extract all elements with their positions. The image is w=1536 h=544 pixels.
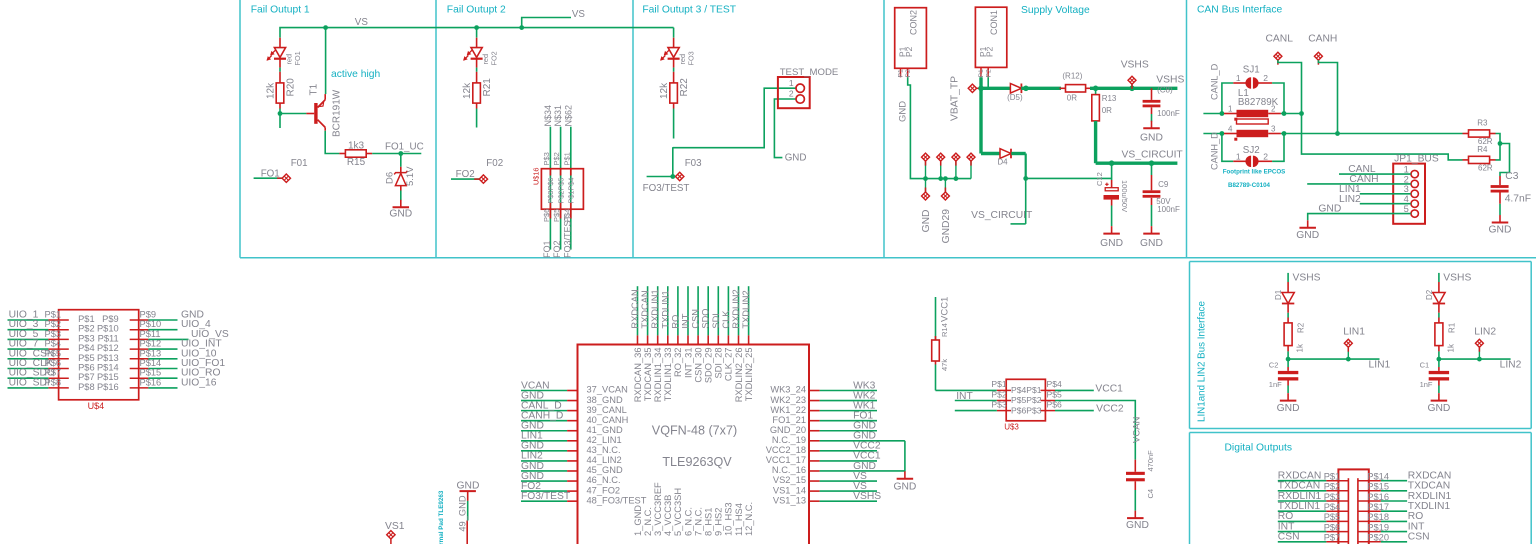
svg-text:39_CANL: 39_CANL bbox=[587, 405, 627, 415]
wires SJ2 to rows bbox=[1222, 134, 1284, 162]
svg-text:P$16: P$16 bbox=[140, 377, 162, 387]
svg-text:SDI: SDI bbox=[711, 313, 721, 329]
wire R3/R4 to C3 bbox=[1496, 134, 1510, 177]
svg-text:P$14: P$14 bbox=[140, 358, 162, 368]
resistor R20 bbox=[276, 72, 284, 109]
svg-text:8_HS1: 8_HS1 bbox=[704, 508, 714, 536]
svg-text:P$5: P$5 bbox=[552, 209, 561, 222]
wire/pin GND (IC left pin 45) bbox=[521, 470, 578, 472]
svg-text:6_N.C.: 6_N.C. bbox=[683, 507, 693, 536]
svg-text:R21: R21 bbox=[482, 78, 493, 97]
diode D2 bbox=[1433, 282, 1445, 318]
wire/pin LIN1 (IC left pin 42) bbox=[521, 440, 578, 442]
svg-text:1_GND: 1_GND bbox=[633, 505, 643, 536]
svg-text:P$2: P$2 bbox=[991, 389, 1007, 399]
svg-text:P$10: P$10 bbox=[97, 324, 119, 334]
capacitor C9 100nF 50V bbox=[1143, 163, 1161, 226]
svg-text:1: 1 bbox=[1228, 105, 1233, 114]
wire U$3 P$5 to C4/VCAN bbox=[1055, 401, 1135, 460]
resistor R22 bbox=[670, 72, 678, 109]
wire FO3 to TEST_MODE pin1 bbox=[672, 147, 674, 176]
wire UIO_4 (U$4 right pin P$10) bbox=[130, 329, 178, 331]
wire R20 to T1 base bbox=[280, 109, 306, 129]
svg-text:45_GND: 45_GND bbox=[587, 465, 623, 475]
wire/pin VCAN (IC left pin 37) bbox=[521, 390, 578, 392]
svg-text:BCR191W: BCR191W bbox=[332, 89, 343, 137]
wire below R22 bbox=[673, 109, 675, 139]
svg-text:44_LIN2: 44_LIN2 bbox=[587, 455, 622, 465]
wire VSHS (LIN2) bbox=[1438, 273, 1440, 282]
junction VSHS test point bbox=[1129, 86, 1135, 92]
svg-text:P$1: P$1 bbox=[1324, 472, 1341, 482]
svg-text:2: 2 bbox=[1263, 151, 1268, 161]
diode D5 bbox=[1010, 84, 1021, 94]
svg-text:47k: 47k bbox=[940, 359, 949, 371]
svg-text:47_FO2: 47_FO2 bbox=[587, 485, 621, 495]
connector CON1 bbox=[975, 7, 1006, 77]
connector JP1_BUS bbox=[1393, 164, 1425, 224]
wire UIO_RO (U$4 right pin P$15) bbox=[130, 377, 178, 379]
svg-text:R15: R15 bbox=[347, 157, 366, 168]
junction VS at LED FO2 bbox=[474, 25, 479, 30]
wire/pin RXDLIN1 (IC top pin 34) bbox=[657, 286, 659, 344]
svg-text:N$31: N$31 bbox=[553, 105, 563, 127]
svg-text:P$6: P$6 bbox=[78, 363, 95, 373]
svg-text:P$3: P$3 bbox=[991, 399, 1007, 409]
svg-text:C2: C2 bbox=[1269, 361, 1279, 370]
wire RXDCAN (right) bbox=[1358, 480, 1407, 482]
svg-text:P$8: P$8 bbox=[78, 382, 95, 392]
svg-text:P$5P$2: P$5P$2 bbox=[1011, 395, 1042, 405]
svg-text:F01: F01 bbox=[291, 158, 308, 169]
wire/pin VS (IC right pin 15) bbox=[809, 480, 877, 482]
wire VS_CIRCUIT rail (thick) bbox=[1096, 121, 1178, 163]
svg-text:R3: R3 bbox=[1477, 118, 1488, 127]
svg-text:LIN2: LIN2 bbox=[1339, 194, 1361, 205]
test point CANH bbox=[1314, 52, 1337, 133]
wire UIO_7 (U$4 left pin P$4) bbox=[8, 348, 69, 350]
svg-text:TEST_MODE: TEST_MODE bbox=[780, 67, 839, 78]
svg-text:R4: R4 bbox=[1477, 145, 1488, 154]
svg-text:RXDLIN2: RXDLIN2 bbox=[731, 289, 741, 328]
solder jumper SJ1 bbox=[1233, 77, 1272, 88]
svg-text:P$5: P$5 bbox=[45, 348, 62, 358]
svg-text:CSN_30: CSN_30 bbox=[693, 348, 703, 383]
svg-text:INT: INT bbox=[956, 391, 973, 402]
svg-text:46_N.C.: 46_N.C. bbox=[587, 475, 621, 485]
svg-text:P$2P$5: P$2P$5 bbox=[556, 178, 565, 204]
wire R14 to U$3 P$1 bbox=[936, 389, 997, 391]
svg-text:37_VCAN: 37_VCAN bbox=[587, 385, 628, 395]
svg-text:P$5: P$5 bbox=[1324, 512, 1341, 522]
svg-text:RXDLIN1: RXDLIN1 bbox=[650, 289, 660, 328]
wire/pin VSHS (IC right pin 13) bbox=[809, 500, 877, 502]
wire VCC2 stub to U$3 P$3 bbox=[955, 410, 997, 412]
svg-text:CLK_27: CLK_27 bbox=[724, 348, 734, 382]
svg-text:LIN1and LIN2 Bus Interface: LIN1and LIN2 Bus Interface bbox=[1197, 301, 1208, 422]
wire INT to U$3 P$2 bbox=[955, 400, 997, 402]
test point VS1 bbox=[385, 521, 405, 544]
svg-text:1nF: 1nF bbox=[1269, 380, 1282, 389]
junction R13 top bbox=[1093, 86, 1099, 92]
wire CSN (left) bbox=[1278, 541, 1349, 543]
resistor R2 1k bbox=[1284, 318, 1292, 360]
svg-text:TLE9263QV: TLE9263QV bbox=[662, 455, 732, 469]
test point VSHS bbox=[1128, 76, 1136, 89]
svg-text:1k: 1k bbox=[1446, 343, 1455, 352]
diode D1 bbox=[1282, 282, 1294, 318]
LED FO1 bbox=[267, 38, 287, 72]
junctions on GND29 rail bbox=[923, 176, 958, 181]
wire GND bend (right side) bbox=[904, 441, 906, 471]
svg-text:FO1_21: FO1_21 bbox=[772, 415, 806, 425]
svg-text:P$4: P$4 bbox=[1324, 502, 1341, 512]
pin labels P$4-P$6 (U$3) bbox=[1047, 379, 1063, 409]
svg-text:P$2: P$2 bbox=[1324, 482, 1341, 492]
wire UIO_1 (U$4 left pin P$1) bbox=[8, 319, 69, 321]
svg-text:43_N.C.: 43_N.C. bbox=[587, 445, 621, 455]
svg-text:Fail Outupt 2: Fail Outupt 2 bbox=[447, 5, 506, 16]
test point FO2 bbox=[451, 175, 488, 183]
svg-text:Supply Voltage: Supply Voltage bbox=[1021, 5, 1090, 16]
wire UIO_VS (U$4 right pin P$11) bbox=[130, 338, 189, 340]
svg-text:1: 1 bbox=[1404, 165, 1409, 175]
resistor R15 bbox=[339, 150, 372, 157]
svg-text:WK3_24: WK3_24 bbox=[770, 385, 806, 395]
svg-text:P$4: P$4 bbox=[45, 339, 62, 349]
svg-text:TXDLIN1: TXDLIN1 bbox=[660, 290, 670, 328]
resistor R4 62R bbox=[1463, 156, 1496, 163]
test point LIN2 bbox=[1475, 339, 1483, 359]
wire TXDLIN1 (left) bbox=[1278, 510, 1349, 512]
svg-text:CANH: CANH bbox=[1308, 34, 1337, 45]
svg-text:RXDLIN2_26: RXDLIN2_26 bbox=[734, 348, 744, 403]
wire CSN (right) bbox=[1358, 541, 1407, 543]
resistor R1 1k bbox=[1435, 318, 1443, 360]
svg-text:U$3: U$3 bbox=[1004, 422, 1019, 431]
svg-text:CANL_D: CANL_D bbox=[1210, 63, 1220, 100]
junction SJ2 right bbox=[1282, 131, 1287, 136]
ground below C3 bbox=[1489, 215, 1512, 236]
svg-text:P$16: P$16 bbox=[97, 382, 119, 392]
GND29 rail test points (bottom row) bbox=[922, 179, 950, 200]
svg-text:2: 2 bbox=[789, 88, 794, 98]
capacitor C8 100nF bbox=[1143, 88, 1161, 121]
svg-text:VCC1_17: VCC1_17 bbox=[766, 455, 806, 465]
common mode choke L1 B82789K bbox=[1224, 110, 1281, 141]
svg-text:VSHS: VSHS bbox=[1121, 60, 1149, 71]
svg-text:TXDLIN2: TXDLIN2 bbox=[741, 290, 751, 328]
svg-text:P$3: P$3 bbox=[542, 152, 551, 165]
svg-text:B82789-C0104: B82789-C0104 bbox=[1228, 182, 1271, 189]
wire RO (right) bbox=[1358, 520, 1407, 522]
wire/pin CLK (IC top pin 27) bbox=[727, 286, 729, 344]
svg-text:P$17: P$17 bbox=[1367, 502, 1389, 512]
svg-text:GND: GND bbox=[1427, 403, 1450, 414]
wire/pin VCC1 (IC right pin 17) bbox=[809, 460, 877, 462]
svg-text:P$6: P$6 bbox=[1324, 522, 1341, 532]
capacitor C1 1nF bbox=[1429, 359, 1449, 393]
svg-text:VCC1: VCC1 bbox=[940, 297, 951, 322]
svg-text:P$3: P$3 bbox=[78, 333, 95, 343]
wire UIO_CLK (U$4 left pin P$6) bbox=[8, 368, 69, 370]
svg-text:D1: D1 bbox=[1274, 289, 1283, 300]
wire RXDLIN1 (right) bbox=[1358, 500, 1407, 502]
resistor R3 62R bbox=[1463, 130, 1496, 137]
svg-text:GND: GND bbox=[389, 209, 412, 220]
resistor R13 bbox=[1092, 88, 1100, 121]
svg-text:2: 2 bbox=[1271, 105, 1276, 114]
svg-text:SDO_29: SDO_29 bbox=[704, 348, 714, 384]
svg-text:GND: GND bbox=[785, 153, 807, 164]
svg-text:R2: R2 bbox=[1297, 322, 1306, 333]
wire UIO_CSN (U$4 left pin P$5) bbox=[8, 358, 69, 360]
ground below D6 bbox=[389, 200, 412, 220]
svg-text:C4: C4 bbox=[1146, 489, 1155, 499]
svg-text:VCC2: VCC2 bbox=[1096, 404, 1124, 415]
wire/pin FO3/TEST (IC left pin 48) bbox=[521, 500, 578, 502]
svg-text:VSHS: VSHS bbox=[1443, 272, 1471, 283]
capacitor C3 4.7nF bbox=[1491, 176, 1509, 215]
svg-text:WK2_23: WK2_23 bbox=[770, 395, 806, 405]
label 12k R22 bbox=[659, 78, 690, 99]
svg-text:TXDCAN_35: TXDCAN_35 bbox=[643, 348, 653, 402]
svg-text:CSN: CSN bbox=[1408, 532, 1430, 543]
svg-text:(R12): (R12) bbox=[1062, 72, 1082, 81]
svg-text:RXDCAN_36: RXDCAN_36 bbox=[633, 348, 643, 403]
diode D4 bbox=[1000, 149, 1011, 159]
svg-text:GND: GND bbox=[898, 101, 909, 122]
capacitor C2 1nF bbox=[1278, 359, 1298, 393]
wire/pin RXDLIN2 (IC top pin 26) bbox=[738, 286, 740, 344]
pin labels P$6 P$5 P$4 (bottom) bbox=[542, 209, 571, 222]
test point FO1 bbox=[254, 174, 291, 182]
svg-text:P2: P2 bbox=[984, 46, 994, 57]
wire INT (left) bbox=[1278, 531, 1349, 533]
svg-text:N.C._19: N.C._19 bbox=[772, 435, 806, 445]
thermal pad GND symbol (inverted) bbox=[457, 480, 480, 544]
svg-text:4: 4 bbox=[1228, 125, 1233, 134]
svg-text:VQFN-48 (7x7): VQFN-48 (7x7) bbox=[652, 424, 737, 438]
wire CANH to JP1 pin2 bbox=[1307, 183, 1411, 185]
svg-text:Thermal Pad TLE9263: Thermal Pad TLE9263 bbox=[438, 490, 445, 544]
svg-text:(D5): (D5) bbox=[1007, 93, 1023, 102]
wire D4 cathode down to VS_CIRCUIT node bbox=[1011, 154, 1112, 224]
svg-text:SDI_28: SDI_28 bbox=[714, 348, 724, 379]
svg-text:(C8): (C8) bbox=[1157, 86, 1173, 95]
svg-text:FO3: FO3 bbox=[686, 51, 695, 65]
wire UIO_FO1 (U$4 right pin P$14) bbox=[130, 368, 178, 370]
svg-text:3_VCC3REF: 3_VCC3REF bbox=[653, 482, 663, 536]
svg-text:VS: VS bbox=[355, 17, 369, 28]
junction VS jog bbox=[519, 25, 524, 30]
junction VS at T1 collector bbox=[323, 25, 328, 30]
svg-text:GND: GND bbox=[1296, 230, 1319, 241]
svg-text:62R: 62R bbox=[1478, 164, 1493, 173]
svg-text:P1: P1 bbox=[978, 69, 985, 78]
wire/pin CSN (IC top pin 30) bbox=[697, 286, 699, 344]
connector (Digital Outputs) box bbox=[1338, 469, 1368, 544]
connector CON2 bbox=[895, 8, 927, 78]
svg-text:P$1: P$1 bbox=[562, 152, 571, 165]
wire/pin TXDLIN2 (IC top pin 25) bbox=[748, 286, 750, 344]
svg-text:P$18: P$18 bbox=[1367, 512, 1389, 522]
svg-text:CON1: CON1 bbox=[989, 10, 999, 35]
label 12k R21 bbox=[462, 78, 493, 99]
svg-text:GND_20: GND_20 bbox=[770, 425, 806, 435]
svg-text:P$7: P$7 bbox=[1324, 533, 1341, 543]
svg-text:P$2: P$2 bbox=[552, 152, 561, 165]
wire GND to JP1 pin5 bbox=[1308, 214, 1411, 221]
svg-text:FO1_UC: FO1_UC bbox=[385, 141, 424, 152]
svg-text:P$9: P$9 bbox=[102, 314, 119, 324]
svg-text:GND: GND bbox=[1140, 132, 1163, 143]
svg-text:GND: GND bbox=[1318, 204, 1341, 215]
svg-text:P$13: P$13 bbox=[97, 353, 119, 363]
wire UIO_3 (U$4 left pin P$2) bbox=[8, 329, 69, 331]
svg-text:CON2: CON2 bbox=[909, 10, 919, 35]
svg-text:P$14: P$14 bbox=[1367, 472, 1389, 482]
resistor R21 bbox=[473, 72, 481, 109]
svg-text:LIN1: LIN1 bbox=[1343, 326, 1365, 337]
svg-text:P$15: P$15 bbox=[140, 368, 162, 378]
svg-text:P$3P$6: P$3P$6 bbox=[546, 178, 555, 204]
svg-text:P$4P$1: P$4P$1 bbox=[1011, 385, 1042, 395]
svg-text:C9: C9 bbox=[1158, 180, 1169, 189]
svg-text:D6: D6 bbox=[384, 172, 395, 184]
svg-text:N.C._16: N.C._16 bbox=[772, 465, 806, 475]
wire/pin SDO (IC top pin 29) bbox=[707, 286, 709, 344]
wire D5 to R12 (thick) bbox=[1021, 87, 1061, 90]
svg-text:4: 4 bbox=[1404, 194, 1409, 204]
LED FO3 bbox=[660, 38, 680, 72]
svg-text:100u/50V: 100u/50V bbox=[1120, 180, 1129, 212]
svg-text:GND: GND bbox=[457, 480, 480, 491]
svg-text:active high: active high bbox=[331, 69, 381, 80]
wire UIO_SDI (U$4 left pin P$8) bbox=[8, 387, 69, 389]
wire/pin VCC2 (IC right pin 18) bbox=[809, 450, 877, 452]
wire/pin GND (IC left pin 46) bbox=[521, 480, 578, 482]
junction SJ2 left bbox=[1220, 131, 1225, 136]
svg-text:C1: C1 bbox=[1420, 361, 1430, 370]
svg-text:INT: INT bbox=[681, 313, 691, 328]
svg-text:5: 5 bbox=[1404, 204, 1409, 214]
label 12k R20 bbox=[266, 78, 297, 99]
wire/pin CANL_D (IC left pin 39) bbox=[521, 410, 578, 412]
svg-text:U$4: U$4 bbox=[88, 401, 105, 411]
svg-text:3: 3 bbox=[1271, 125, 1276, 134]
transistor T1 BCR191W bbox=[306, 94, 325, 131]
svg-text:VS_CIRCUIT: VS_CIRCUIT bbox=[1122, 149, 1184, 160]
svg-text:49_GND: 49_GND bbox=[458, 495, 468, 531]
svg-text:VSHS: VSHS bbox=[853, 491, 881, 502]
svg-text:P$3: P$3 bbox=[45, 329, 62, 339]
ground below C9 bbox=[1140, 226, 1163, 249]
junction C9 bbox=[1149, 160, 1155, 166]
svg-text:P$4: P$4 bbox=[1047, 379, 1063, 389]
svg-text:GND: GND bbox=[1140, 238, 1163, 249]
svg-text:WK1_22: WK1_22 bbox=[770, 405, 806, 415]
wire LIN1 row bbox=[1288, 358, 1379, 360]
wire/pin GND (IC left pin 43) bbox=[521, 450, 578, 452]
svg-text:P$1: P$1 bbox=[991, 379, 1007, 389]
svg-text:5_VCC3SH: 5_VCC3SH bbox=[673, 488, 683, 536]
ground below C1 bbox=[1427, 393, 1450, 414]
svg-text:VSHS: VSHS bbox=[1293, 272, 1321, 283]
svg-text:12k: 12k bbox=[462, 82, 473, 99]
wire RO (left) bbox=[1278, 520, 1349, 522]
jumper block U$16 wires bbox=[550, 127, 570, 250]
pin numbers JP1 1-5 bbox=[1404, 165, 1409, 215]
wire UIO_INT (U$4 right pin P$12) bbox=[130, 348, 178, 350]
pin labels P$3 P$2 P$1 (top) bbox=[542, 152, 571, 165]
svg-text:P$8: P$8 bbox=[45, 377, 62, 387]
wire RXDLIN1 (left) bbox=[1278, 500, 1349, 502]
svg-text:P$6: P$6 bbox=[542, 209, 551, 222]
wire CANH_D row to R3 bbox=[1203, 133, 1462, 135]
wire/pin GND (IC left pin 41) bbox=[521, 430, 578, 432]
junction LIN1 bbox=[1286, 357, 1291, 362]
wires SJ1 to rows bbox=[1222, 83, 1284, 114]
svg-text:4.7nF: 4.7nF bbox=[1505, 194, 1531, 205]
svg-text:P$6P$3: P$6P$3 bbox=[1011, 405, 1042, 415]
svg-text:3: 3 bbox=[1404, 184, 1409, 194]
wire/pin RXDCAN (IC top pin 36) bbox=[637, 286, 639, 344]
svg-text:GND: GND bbox=[1489, 225, 1512, 236]
svg-text:FO1: FO1 bbox=[293, 51, 302, 65]
wire T1 emitter down to R15 bbox=[325, 131, 339, 154]
svg-text:11_HS4: 11_HS4 bbox=[734, 503, 744, 536]
svg-text:FO1: FO1 bbox=[261, 168, 280, 179]
svg-text:CANL: CANL bbox=[1266, 34, 1294, 45]
svg-text:2: 2 bbox=[1404, 174, 1409, 184]
wire/pin WK1 (IC right pin 22) bbox=[809, 410, 877, 412]
wire/pin WK2 (IC right pin 23) bbox=[809, 400, 877, 402]
junction SJ1 left bbox=[1220, 111, 1225, 116]
ground below C12 bbox=[1100, 226, 1123, 249]
svg-text:P$10: P$10 bbox=[140, 319, 162, 329]
wire TXDCAN (left) bbox=[1278, 490, 1349, 492]
svg-text:CLK: CLK bbox=[721, 310, 731, 329]
jumper block U$3 box bbox=[997, 379, 1055, 421]
svg-text:VCAN: VCAN bbox=[1132, 416, 1143, 443]
junction CANH / CANH_D row bbox=[1335, 131, 1340, 136]
junction FO1_UC bbox=[398, 151, 403, 156]
svg-text:P$15: P$15 bbox=[97, 372, 119, 382]
labels FO1 FO2 FO3/TEST (bottom nets) bbox=[542, 214, 572, 258]
svg-text:P$1: P$1 bbox=[78, 314, 95, 324]
wire/pin LIN2 (IC left pin 44) bbox=[521, 460, 578, 462]
svg-text:1: 1 bbox=[789, 78, 794, 88]
svg-text:GND: GND bbox=[1277, 403, 1300, 414]
svg-text:Fail Outupt 3 / TEST: Fail Outupt 3 / TEST bbox=[642, 5, 736, 16]
svg-text:R1: R1 bbox=[1447, 322, 1456, 333]
wire/pin VS (IC right pin 14) bbox=[809, 490, 877, 492]
svg-text:41_GND: 41_GND bbox=[587, 425, 623, 435]
svg-text:P2: P2 bbox=[905, 69, 912, 78]
solder jumper SJ2 bbox=[1233, 156, 1272, 167]
svg-text:12k: 12k bbox=[659, 82, 670, 99]
svg-text:P$12: P$12 bbox=[97, 343, 119, 353]
junction VBAT bbox=[978, 86, 984, 92]
svg-text:1k: 1k bbox=[1296, 343, 1305, 352]
wire RXDCAN (left) bbox=[1278, 480, 1349, 482]
wire/pin TXDLIN1 (IC top pin 33) bbox=[667, 286, 669, 344]
wire/pin FO2 (IC left pin 47) bbox=[521, 490, 578, 492]
test point FO3 bbox=[647, 172, 684, 180]
svg-text:9_HS2: 9_HS2 bbox=[714, 508, 724, 536]
svg-text:N$34: N$34 bbox=[543, 105, 553, 127]
